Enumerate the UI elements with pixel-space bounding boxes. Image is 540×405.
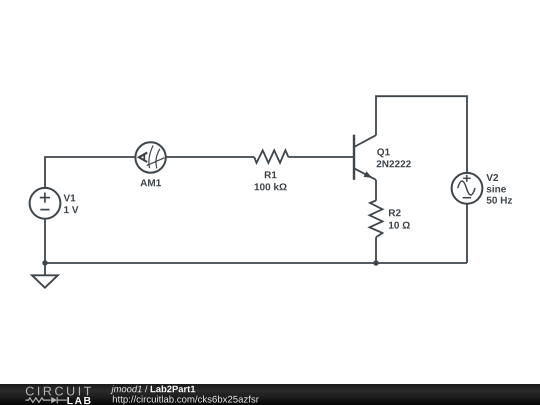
footer text url	[113, 396, 259, 405]
footer bar	[0, 384, 540, 405]
ground	[32, 275, 58, 287]
node: junction dot V1/ground rail	[42, 260, 47, 265]
resistor R1	[254, 150, 288, 163]
transistor Q1	[354, 135, 376, 180]
label V2	[486, 174, 498, 181]
footer text slash	[145, 385, 148, 392]
label 1 V	[64, 206, 78, 213]
label Q1	[377, 148, 390, 157]
voltage source V1	[30, 188, 61, 219]
logo word CIRCUIT	[26, 387, 91, 396]
footer text jmood1	[110, 385, 141, 394]
wire: R2 to bottom rail	[375, 237, 377, 263]
label R2	[389, 209, 401, 216]
node: junction dot R2/bottom rail	[373, 260, 378, 265]
logo resistor squiggle and diode	[26, 397, 67, 403]
wire: ground stem	[44, 263, 46, 275]
wire: collector top rail and V2 drop	[376, 96, 467, 173]
label V1	[64, 195, 76, 202]
label AM1	[140, 179, 161, 186]
label 100 kΩ	[255, 183, 287, 190]
label sine	[487, 185, 506, 192]
sine source V2	[452, 173, 483, 204]
wire: V1 top up and across to AM1	[45, 157, 136, 188]
label 10 Ω	[389, 222, 410, 229]
wire: emitter to R2	[375, 180, 377, 201]
wire: bottom rail	[45, 262, 467, 264]
label 2N2222	[377, 160, 411, 167]
wire: AM1 to R1	[166, 156, 255, 158]
label 50 Hz	[487, 197, 512, 204]
resistor R2	[370, 201, 383, 238]
footer text Lab2Part1	[151, 385, 196, 392]
ammeter AM1	[135, 142, 165, 172]
wire: V2 bottom	[466, 204, 468, 263]
wire: V1 bottom to ground node	[44, 218, 46, 263]
wire: R1 to Q1 base	[288, 156, 353, 158]
logo word LAB	[67, 397, 90, 404]
label R1	[265, 171, 277, 178]
